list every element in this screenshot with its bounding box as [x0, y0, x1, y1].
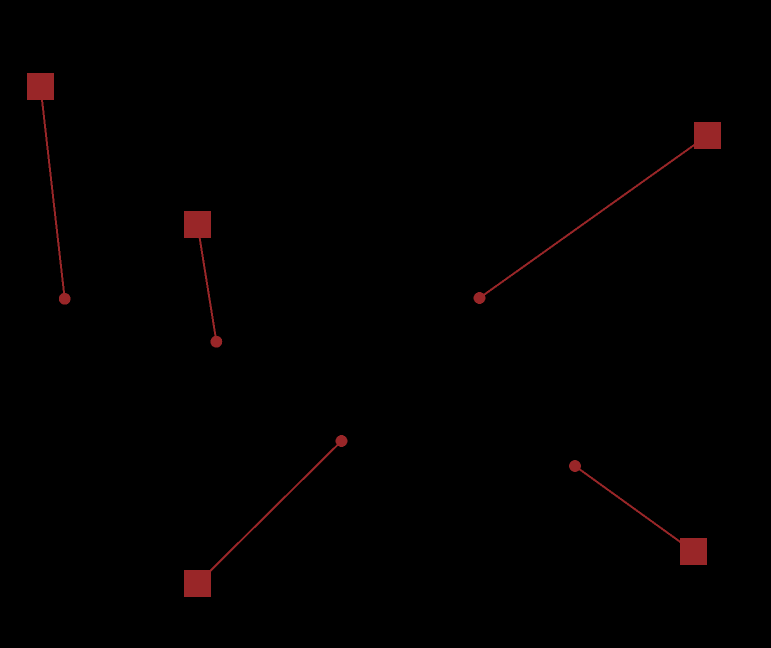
wire: leader line from marker M5 square to its anchor dot — [575, 466, 694, 552]
marker M1: square handle (top-left) — [27, 73, 54, 100]
node A2: anchor dot of marker M2 — [211, 336, 223, 348]
node A3: anchor dot of marker M3 — [474, 292, 486, 304]
node A5: anchor dot of marker M5 — [569, 460, 581, 472]
wire: leader line from marker M4 square to its anchor dot — [198, 441, 342, 584]
wire: leader line from marker M2 square to its anchor dot — [198, 225, 217, 342]
marker M3: square handle (top-right) — [694, 122, 721, 149]
marker M5: square handle (bottom-right) — [680, 538, 707, 565]
marker M4: square handle (bottom-left) — [184, 570, 211, 597]
marker M2: square handle (upper middle-left) — [184, 211, 211, 238]
node A1: anchor dot of marker M1 — [59, 293, 71, 305]
wire: leader line from marker M3 square to its anchor dot — [480, 136, 708, 299]
wire: leader line from marker M1 square to its anchor dot — [41, 87, 65, 299]
node A4: anchor dot of marker M4 — [336, 435, 348, 447]
